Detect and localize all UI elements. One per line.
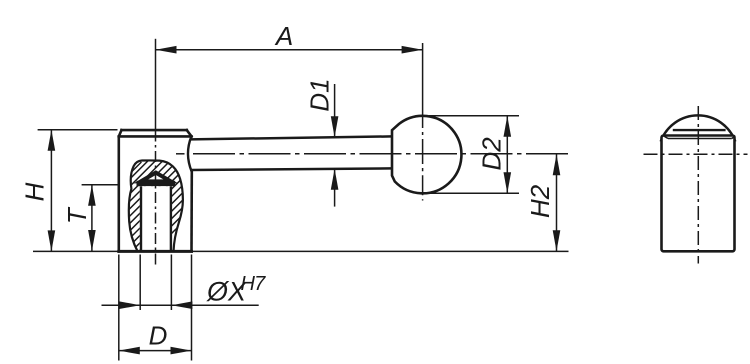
svg-text:T: T [62, 206, 92, 224]
bottom reference baseline [33, 250, 569, 252]
handle shaft top edge [190, 136, 392, 139]
dimension A right extension line [422, 43, 424, 117]
dimension H line [50, 130, 52, 252]
side view vertical centerline [697, 106, 699, 264]
lever head outline [119, 130, 192, 251]
dimension D line [119, 350, 192, 352]
svg-text:H2: H2 [525, 184, 555, 218]
dimension T top arrowhead [88, 185, 96, 206]
svg-text:D: D [149, 321, 168, 351]
shaft axis centerline stub [176, 153, 185, 155]
dimension D2 top extension line [429, 115, 519, 117]
dimension H top extension line [38, 129, 118, 131]
side view body rectangle [661, 115, 736, 251]
svg-text:D1: D1 [304, 78, 334, 111]
dimension D1 lower line [334, 169, 336, 207]
svg-text:D2: D2 [477, 137, 507, 171]
dimension T line [91, 185, 93, 251]
dimension H top arrowhead [48, 130, 56, 151]
dimension H bottom arrowhead [48, 230, 56, 251]
ball axis centerline dashed part [422, 132, 424, 201]
thread shoulder black bar [137, 181, 176, 186]
bore right extension line [170, 255, 172, 311]
dimension A right arrowhead [402, 46, 423, 54]
dimension D2 line [506, 116, 508, 193]
dimension D left arrowhead [119, 347, 140, 355]
shaft root intersection curve [188, 136, 192, 172]
cavity outline [129, 160, 183, 251]
dimension D2 top arrowhead [504, 116, 512, 137]
dimension D right extension line [191, 255, 193, 361]
side view horizontal centerline [644, 153, 748, 155]
dimension D right arrowhead [171, 347, 192, 355]
section hatching of head cavity [34, 160, 245, 266]
bore axis centerline [155, 131, 157, 266]
bore left edge [140, 186, 142, 251]
bore left extension line [139, 255, 141, 311]
dimension D2 bottom arrowhead [504, 172, 512, 193]
dimension OX H7 left arrowhead [119, 301, 140, 309]
dimension H2 bottom arrowhead [553, 230, 561, 251]
shaft axis centerline [193, 153, 569, 155]
handle shaft bottom edge [190, 168, 392, 170]
dimension T top extension line [82, 184, 119, 186]
dimension T bottom arrowhead [88, 230, 96, 251]
tapped bore interior (white) [140, 186, 172, 251]
dimension H2 line [556, 154, 558, 251]
ball end outline [392, 116, 461, 193]
dimension D1 upper line [334, 84, 336, 137]
svg-text:H: H [19, 182, 49, 201]
thread cone tip (white triangle with thick stroke) [141, 173, 171, 182]
svg-text:H7: H7 [241, 273, 267, 295]
svg-text:A: A [274, 21, 293, 51]
bore right edge [170, 186, 172, 251]
dimension OX H7 right arrowhead [171, 301, 192, 309]
dimension H2 top arrowhead [553, 154, 561, 175]
dimension A line [156, 49, 423, 51]
dimension D1 upper arrowhead [331, 116, 339, 137]
dimension OX H7 line [102, 304, 259, 306]
dimension D left extension line [118, 255, 120, 361]
dimension A left arrowhead [156, 46, 177, 54]
dimension D1 lower arrowhead [331, 169, 339, 190]
dimension D2 bottom extension line [426, 192, 519, 194]
ball axis centerline solid part [422, 116, 424, 128]
dimension A left extension line [155, 39, 157, 131]
